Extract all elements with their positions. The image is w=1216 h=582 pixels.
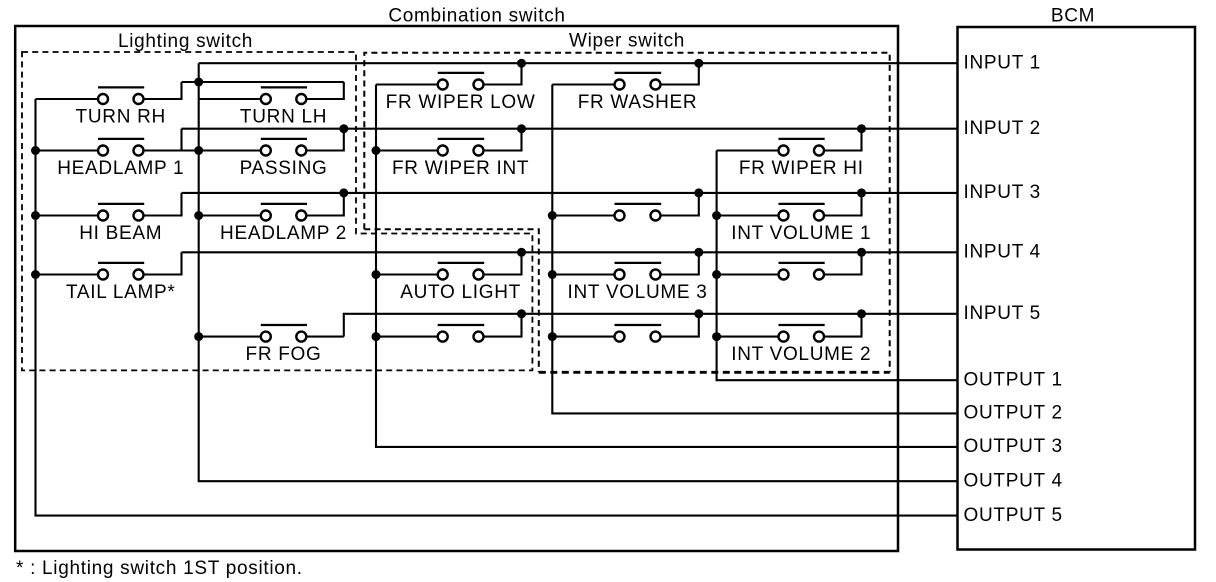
svg-text:FR WASHER: FR WASHER (578, 92, 698, 113)
junction dots INPUT 5 (517, 309, 866, 318)
net INPUT 3 wire (182, 192, 958, 194)
svg-text:FR FOG: FR FOG (246, 344, 322, 365)
combination switch outer box (15, 26, 898, 551)
wire FR WIPER HI left (717, 149, 779, 151)
svg-text:OUTPUT 4: OUTPUT 4 (964, 471, 1063, 492)
switch PASSING S6 (261, 139, 307, 156)
svg-text:FR WIPER HI: FR WIPER HI (739, 158, 864, 179)
wire HEADLAMP 2 right riser (306, 193, 344, 216)
switch HEADLAMP 2 S10 (261, 204, 307, 221)
junction dots INPUT 3 (339, 188, 866, 197)
svg-text:TURN RH: TURN RH (76, 107, 166, 128)
BCM box U1 (958, 27, 1196, 550)
wire FR WIPER INT right riser (484, 129, 522, 151)
net INPUT 2 wire (182, 128, 958, 130)
switch row5 mid S19 (615, 325, 662, 342)
switch HI BEAM S9 (98, 204, 144, 221)
svg-text:INPUT 5: INPUT 5 (964, 303, 1041, 324)
switch INT VOLUME 1 S12 (779, 204, 825, 221)
svg-text:OUTPUT 1: OUTPUT 1 (964, 370, 1063, 391)
net INPUT 4 wire (182, 251, 958, 253)
net OUTPUT 1 wire (bus) (717, 151, 958, 381)
wire TURN row link (182, 81, 344, 83)
switch FR WIPER HI S8 (779, 139, 825, 156)
wire TURN LH right riser (306, 82, 344, 99)
wire TAIL LAMP right riser to INPUT 4 (144, 252, 182, 274)
wire INT VOLUME 2 left (717, 336, 779, 338)
wire FR FOG right riser to INPUT 5 (306, 336, 344, 338)
wire FR WIPER INT left (376, 149, 438, 151)
wire row5 mid switch riser (661, 314, 699, 337)
junction dots INPUT 2 (339, 124, 866, 133)
svg-text:FR WIPER INT: FR WIPER INT (392, 158, 529, 179)
junction dots bus 2 (194, 146, 203, 341)
wire row4 right pair-switch riser (824, 252, 862, 274)
switch INT VOLUME 3 S15 (615, 263, 662, 280)
switch AUTO LIGHT S14 (438, 263, 485, 280)
lighting switch dashed box (22, 52, 532, 370)
wire TURN RH left (36, 98, 99, 100)
wire INT VOLUME 3 right riser (661, 252, 699, 274)
svg-text:Wiper switch: Wiper switch (569, 31, 685, 52)
wire row5 col3 switch riser (484, 314, 522, 337)
svg-text:INPUT 2: INPUT 2 (964, 118, 1041, 139)
wire HI BEAM right riser to INPUT 3 (144, 193, 182, 216)
net OUTPUT 5 wire (bus) (36, 99, 958, 516)
wire HEADLAMP 1 left (36, 149, 99, 151)
wire AUTO LIGHT right riser (484, 252, 522, 274)
net INPUT 1 wire (199, 62, 958, 64)
switch TURN LH S2 (261, 87, 307, 104)
net INPUT 5 wire (344, 314, 958, 337)
svg-text:INT VOLUME 1: INT VOLUME 1 (731, 223, 871, 244)
wire INT VOLUME 1 right riser (824, 193, 862, 216)
wire FR WIPER LOW left (376, 83, 438, 85)
net OUTPUT 3 wire (bus) (376, 85, 958, 447)
wire INT VOLUME 1 left (717, 214, 779, 216)
svg-text:HI BEAM: HI BEAM (79, 223, 162, 244)
junction dots INPUT 1 (517, 59, 703, 68)
switch row5 col3 S18 (438, 325, 485, 342)
wire HEADLAMP 1 riser to INPUT 2 (180, 129, 182, 151)
wire TURN RH right riser (144, 82, 182, 99)
wire HEADLAMP 2 left (199, 214, 261, 216)
switch TURN RH S1 (98, 87, 144, 104)
svg-text:FR WIPER LOW: FR WIPER LOW (386, 92, 536, 113)
junction dot TURN link (194, 78, 203, 87)
svg-text:INT VOLUME 2: INT VOLUME 2 (731, 344, 871, 365)
svg-text:PASSING: PASSING (240, 158, 328, 179)
junction dots left bus (31, 146, 40, 279)
switch FR FOG S17 (261, 325, 307, 342)
switch FR WIPER INT S7 (438, 139, 485, 156)
wire INT VOLUME 3 left (552, 273, 614, 275)
junction dots bus 4 (548, 211, 557, 341)
svg-text:TURN LH: TURN LH (240, 107, 327, 128)
wire FR FOG left (199, 336, 261, 338)
svg-text:Combination switch: Combination switch (388, 6, 565, 27)
svg-text:HEADLAMP 2: HEADLAMP 2 (220, 223, 347, 244)
wire PASSING right riser (306, 129, 344, 151)
switch INT VOLUME 2 S20 (779, 325, 825, 342)
svg-text:BCM: BCM (1051, 6, 1095, 27)
svg-text:* : Lighting switch 1ST positi: * : Lighting switch 1ST position. (16, 558, 303, 579)
net OUTPUT 2 wire (bus) (552, 85, 957, 414)
svg-text:AUTO LIGHT: AUTO LIGHT (400, 282, 521, 303)
svg-text:HEADLAMP 1: HEADLAMP 1 (57, 158, 184, 179)
wire HEADLAMP 1 right to PASSING left (144, 149, 261, 151)
junction dots bus 3 (372, 146, 381, 341)
svg-text:OUTPUT 2: OUTPUT 2 (964, 403, 1063, 424)
svg-text:INT VOLUME 3: INT VOLUME 3 (567, 282, 707, 303)
svg-text:TAIL LAMP*: TAIL LAMP* (66, 282, 175, 303)
junction dots bus 5 (712, 211, 721, 341)
svg-text:OUTPUT 5: OUTPUT 5 (964, 505, 1063, 526)
wire FR WASHER left (552, 83, 614, 85)
switch TAIL LAMP S13 (98, 263, 144, 280)
switch INT VOLUME 1 pair S11 (615, 204, 662, 221)
wire TAIL LAMP left (36, 273, 99, 275)
switch row4 right pair S16 (779, 263, 825, 280)
wire row4 right pair-switch left (717, 273, 779, 275)
wiper switch dashed box bottom edge (539, 371, 890, 374)
wire FR WASHER right riser (661, 63, 699, 84)
wire INT VOLUME 1 pair-switch right riser (661, 193, 699, 216)
junction dots INPUT 4 (517, 248, 866, 257)
wiper switch dashed box (364, 53, 889, 373)
svg-text:INPUT 3: INPUT 3 (964, 182, 1041, 203)
wire INT VOLUME 2 right riser (824, 314, 862, 337)
net OUTPUT 4 wire (bus) (199, 63, 958, 481)
switch FR WASHER S4 (615, 73, 662, 90)
svg-text:OUTPUT 3: OUTPUT 3 (964, 436, 1063, 457)
wire INT VOLUME 1 pair-switch left (552, 214, 614, 216)
wire FR WIPER HI right riser (824, 129, 862, 151)
switch FR WIPER LOW S3 (438, 73, 485, 90)
wire AUTO LIGHT left (376, 273, 438, 275)
svg-text:Lighting switch: Lighting switch (118, 31, 253, 52)
wire HI BEAM left (36, 214, 99, 216)
wire row5 col3 switch left (376, 336, 438, 338)
wire TURN LH left (199, 98, 261, 100)
wire row5 mid switch left (552, 336, 614, 338)
wire FR WIPER LOW right riser (484, 63, 522, 84)
svg-text:INPUT 4: INPUT 4 (964, 242, 1041, 263)
switch HEADLAMP 1 S5 (98, 139, 144, 156)
svg-text:INPUT 1: INPUT 1 (964, 53, 1041, 74)
